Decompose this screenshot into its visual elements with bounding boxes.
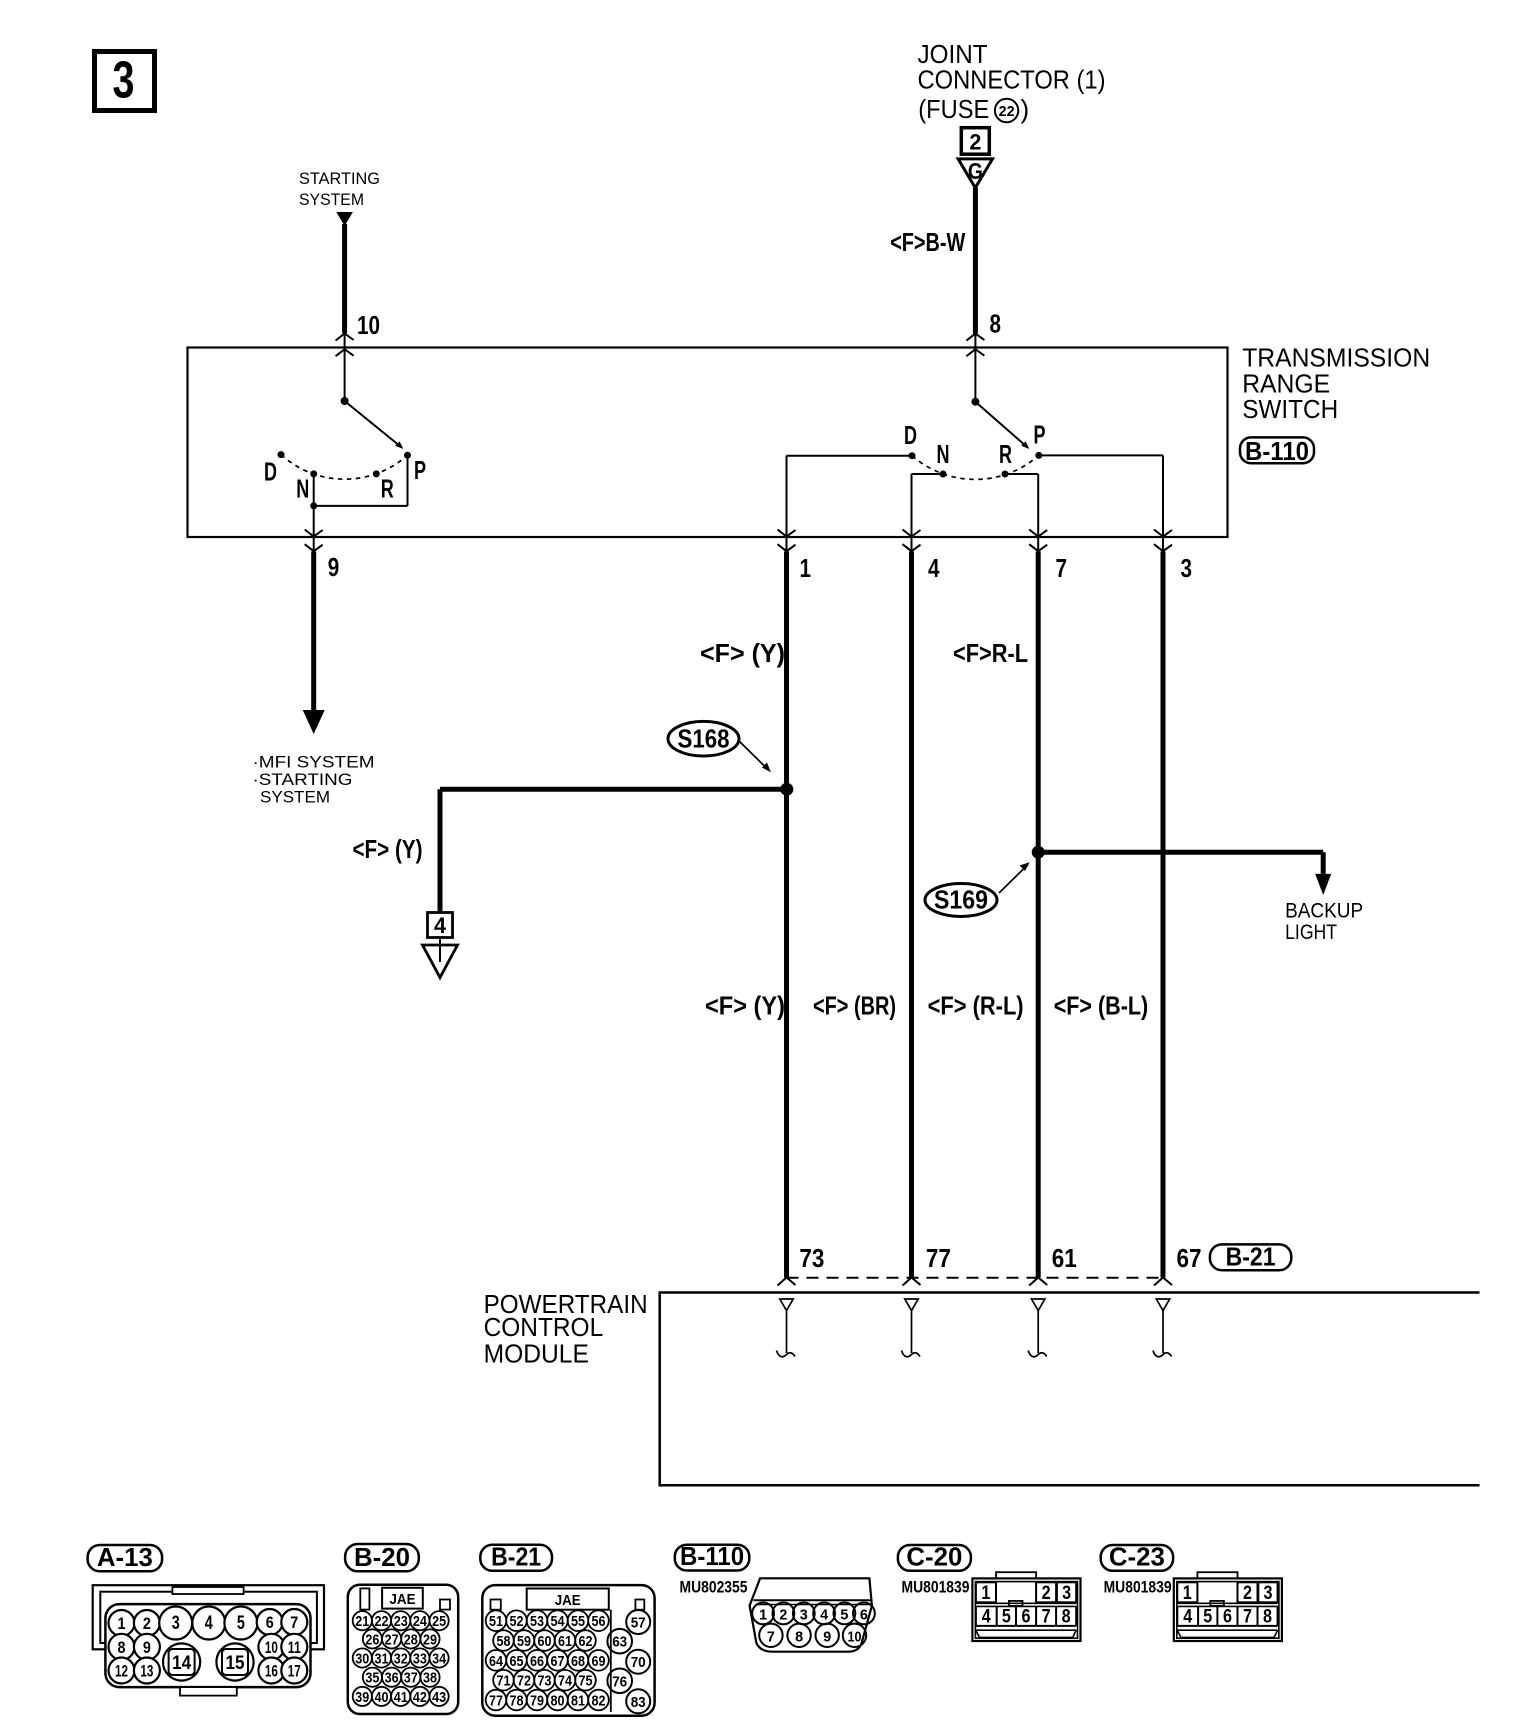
svg-text:6: 6 xyxy=(1022,1607,1031,1628)
svg-text:P: P xyxy=(1034,420,1046,450)
svg-text:3: 3 xyxy=(1062,1583,1071,1604)
svg-text:CONTROL: CONTROL xyxy=(484,1312,604,1342)
svg-text:B-21: B-21 xyxy=(491,1541,541,1571)
svg-text:25: 25 xyxy=(432,1613,446,1630)
svg-text:10: 10 xyxy=(357,310,380,340)
svg-text:3: 3 xyxy=(1181,553,1193,583)
svg-text:): ) xyxy=(1021,94,1030,124)
svg-text:JAE: JAE xyxy=(390,1591,416,1608)
svg-text:39: 39 xyxy=(355,1689,369,1706)
svg-text:R: R xyxy=(999,439,1012,469)
svg-text:70: 70 xyxy=(631,1654,646,1671)
svg-text:30: 30 xyxy=(355,1651,369,1668)
svg-text:·STARTING: ·STARTING xyxy=(253,770,353,789)
svg-text:60: 60 xyxy=(538,1633,552,1650)
svg-text:1: 1 xyxy=(759,1607,767,1624)
svg-text:(FUSE: (FUSE xyxy=(918,94,989,124)
svg-text:21: 21 xyxy=(355,1613,369,1630)
svg-text:34: 34 xyxy=(432,1651,447,1668)
svg-text:36: 36 xyxy=(385,1670,399,1687)
svg-text:10: 10 xyxy=(848,1629,862,1646)
svg-text:BACKUP: BACKUP xyxy=(1285,899,1363,922)
svg-text:<F> (Y): <F> (Y) xyxy=(705,991,785,1021)
svg-text:<F> (B-L): <F> (B-L) xyxy=(1054,991,1149,1021)
svg-text:73: 73 xyxy=(538,1673,552,1690)
svg-text:3: 3 xyxy=(172,1613,180,1634)
svg-text:57: 57 xyxy=(631,1615,646,1632)
svg-text:41: 41 xyxy=(394,1689,408,1706)
svg-text:4: 4 xyxy=(928,553,940,583)
svg-text:MU801839: MU801839 xyxy=(1104,1577,1172,1596)
svg-text:JAE: JAE xyxy=(555,1592,581,1609)
svg-text:74: 74 xyxy=(558,1673,573,1690)
svg-text:81: 81 xyxy=(571,1693,585,1710)
svg-text:9: 9 xyxy=(328,552,340,582)
svg-text:4: 4 xyxy=(434,913,447,938)
svg-text:83: 83 xyxy=(631,1694,646,1711)
svg-text:82: 82 xyxy=(592,1693,606,1710)
svg-text:32: 32 xyxy=(394,1651,408,1668)
svg-text:C-23: C-23 xyxy=(1109,1541,1165,1571)
svg-text:N: N xyxy=(937,439,950,469)
svg-text:5: 5 xyxy=(1002,1607,1011,1628)
svg-text:61: 61 xyxy=(1052,1243,1077,1273)
svg-text:D: D xyxy=(904,420,917,450)
svg-text:26: 26 xyxy=(365,1631,379,1648)
svg-text:R: R xyxy=(381,474,394,504)
svg-text:·MFI SYSTEM: ·MFI SYSTEM xyxy=(253,753,375,772)
svg-text:59: 59 xyxy=(517,1633,531,1650)
svg-text:22: 22 xyxy=(375,1613,389,1630)
svg-text:64: 64 xyxy=(489,1653,504,1670)
svg-text:63: 63 xyxy=(612,1634,627,1651)
svg-text:61: 61 xyxy=(558,1633,572,1650)
svg-text:31: 31 xyxy=(375,1651,389,1668)
svg-text:7: 7 xyxy=(1056,553,1068,583)
svg-text:73: 73 xyxy=(799,1243,824,1273)
svg-text:SWITCH: SWITCH xyxy=(1242,394,1338,424)
svg-text:2: 2 xyxy=(1243,1583,1252,1604)
svg-text:3: 3 xyxy=(113,52,135,110)
svg-text:56: 56 xyxy=(592,1613,606,1630)
svg-text:75: 75 xyxy=(579,1673,593,1690)
svg-text:D: D xyxy=(264,457,277,487)
svg-text:8: 8 xyxy=(795,1629,803,1646)
svg-text:13: 13 xyxy=(140,1662,153,1681)
svg-text:<F> (Y): <F> (Y) xyxy=(700,638,785,668)
svg-text:N: N xyxy=(296,474,309,504)
svg-text:<F>B-W: <F>B-W xyxy=(890,227,965,257)
svg-text:40: 40 xyxy=(375,1689,389,1706)
svg-text:77: 77 xyxy=(926,1243,951,1273)
svg-text:9: 9 xyxy=(143,1638,151,1657)
svg-text:24: 24 xyxy=(413,1613,428,1630)
svg-text:4: 4 xyxy=(1183,1607,1192,1628)
svg-text:SYSTEM: SYSTEM xyxy=(260,788,330,807)
svg-text:14: 14 xyxy=(172,1653,191,1674)
svg-text:<F> (BR): <F> (BR) xyxy=(813,991,896,1021)
svg-text:68: 68 xyxy=(571,1653,585,1670)
svg-text:33: 33 xyxy=(413,1651,427,1668)
svg-text:12: 12 xyxy=(115,1662,128,1681)
svg-text:76: 76 xyxy=(612,1673,627,1690)
svg-text:17: 17 xyxy=(288,1662,301,1681)
svg-text:9: 9 xyxy=(823,1629,831,1646)
svg-text:C-20: C-20 xyxy=(906,1541,962,1571)
svg-text:MODULE: MODULE xyxy=(484,1338,589,1368)
svg-text:S168: S168 xyxy=(678,724,730,754)
svg-text:1: 1 xyxy=(1183,1583,1192,1604)
svg-text:1: 1 xyxy=(118,1614,126,1633)
svg-text:5: 5 xyxy=(1203,1607,1212,1628)
svg-text:79: 79 xyxy=(530,1693,544,1710)
svg-text:67: 67 xyxy=(551,1653,565,1670)
svg-text:7: 7 xyxy=(1243,1607,1252,1628)
svg-text:69: 69 xyxy=(592,1653,606,1670)
svg-text:MU801839: MU801839 xyxy=(902,1577,970,1596)
svg-text:7: 7 xyxy=(767,1629,775,1646)
svg-text:A-13: A-13 xyxy=(97,1542,153,1572)
svg-text:8: 8 xyxy=(990,309,1002,339)
svg-text:3: 3 xyxy=(1264,1583,1273,1604)
svg-text:CONNECTOR (1): CONNECTOR (1) xyxy=(918,65,1106,95)
svg-text:37: 37 xyxy=(404,1670,418,1687)
svg-text:STARTING: STARTING xyxy=(299,169,380,188)
svg-text:66: 66 xyxy=(530,1653,544,1670)
svg-text:6: 6 xyxy=(266,1613,274,1632)
svg-text:77: 77 xyxy=(489,1693,503,1710)
svg-text:4: 4 xyxy=(820,1607,829,1624)
svg-text:1: 1 xyxy=(800,553,812,583)
svg-text:11: 11 xyxy=(288,1638,301,1657)
svg-text:<F>R-L: <F>R-L xyxy=(953,638,1028,668)
svg-text:B-110: B-110 xyxy=(1245,436,1309,466)
svg-text:72: 72 xyxy=(517,1673,531,1690)
svg-text:8: 8 xyxy=(118,1638,126,1657)
svg-text:8: 8 xyxy=(1062,1607,1071,1628)
svg-text:G: G xyxy=(968,158,983,184)
svg-text:S169: S169 xyxy=(934,885,988,915)
svg-text:78: 78 xyxy=(510,1693,524,1710)
svg-text:1: 1 xyxy=(981,1583,990,1604)
svg-text:55: 55 xyxy=(571,1613,585,1630)
svg-text:2: 2 xyxy=(143,1614,151,1633)
svg-text:22: 22 xyxy=(999,103,1015,120)
svg-text:52: 52 xyxy=(510,1613,524,1630)
svg-text:P: P xyxy=(414,455,426,485)
svg-text:42: 42 xyxy=(413,1689,427,1706)
svg-text:8: 8 xyxy=(1263,1607,1272,1628)
svg-text:15: 15 xyxy=(226,1653,245,1674)
svg-text:58: 58 xyxy=(497,1633,511,1650)
svg-text:<F> (R-L): <F> (R-L) xyxy=(928,991,1024,1021)
svg-text:B-110: B-110 xyxy=(680,1541,744,1571)
svg-text:4: 4 xyxy=(982,1607,991,1628)
svg-text:6: 6 xyxy=(860,1607,868,1624)
svg-text:43: 43 xyxy=(432,1689,446,1706)
svg-text:23: 23 xyxy=(394,1613,408,1630)
svg-text:7: 7 xyxy=(1042,1607,1051,1628)
svg-text:LIGHT: LIGHT xyxy=(1285,921,1337,944)
svg-text:27: 27 xyxy=(385,1631,399,1648)
svg-text:SYSTEM: SYSTEM xyxy=(299,190,364,209)
svg-text:35: 35 xyxy=(365,1670,379,1687)
svg-text:29: 29 xyxy=(423,1631,437,1648)
svg-text:2: 2 xyxy=(1042,1583,1051,1604)
svg-text:4: 4 xyxy=(205,1613,213,1634)
svg-text:67: 67 xyxy=(1177,1243,1202,1273)
svg-text:62: 62 xyxy=(579,1633,593,1650)
svg-text:2: 2 xyxy=(969,130,981,155)
svg-text:28: 28 xyxy=(404,1631,418,1648)
svg-text:16: 16 xyxy=(265,1662,278,1681)
svg-text:71: 71 xyxy=(497,1673,511,1690)
svg-text:3: 3 xyxy=(800,1607,808,1624)
svg-text:B-20: B-20 xyxy=(354,1542,410,1572)
svg-text:53: 53 xyxy=(530,1613,544,1630)
svg-text:B-21: B-21 xyxy=(1226,1242,1276,1272)
svg-text:10: 10 xyxy=(265,1638,278,1657)
svg-text:6: 6 xyxy=(1223,1607,1232,1628)
svg-text:38: 38 xyxy=(423,1670,437,1687)
svg-text:54: 54 xyxy=(551,1613,566,1630)
svg-text:80: 80 xyxy=(551,1693,565,1710)
svg-text:5: 5 xyxy=(840,1607,848,1624)
svg-text:MU802355: MU802355 xyxy=(680,1577,748,1596)
svg-text:7: 7 xyxy=(290,1613,298,1632)
svg-text:<F> (Y): <F> (Y) xyxy=(353,834,423,864)
svg-text:65: 65 xyxy=(510,1653,524,1670)
svg-text:5: 5 xyxy=(237,1613,245,1634)
svg-text:2: 2 xyxy=(779,1607,787,1624)
svg-text:51: 51 xyxy=(489,1613,503,1630)
